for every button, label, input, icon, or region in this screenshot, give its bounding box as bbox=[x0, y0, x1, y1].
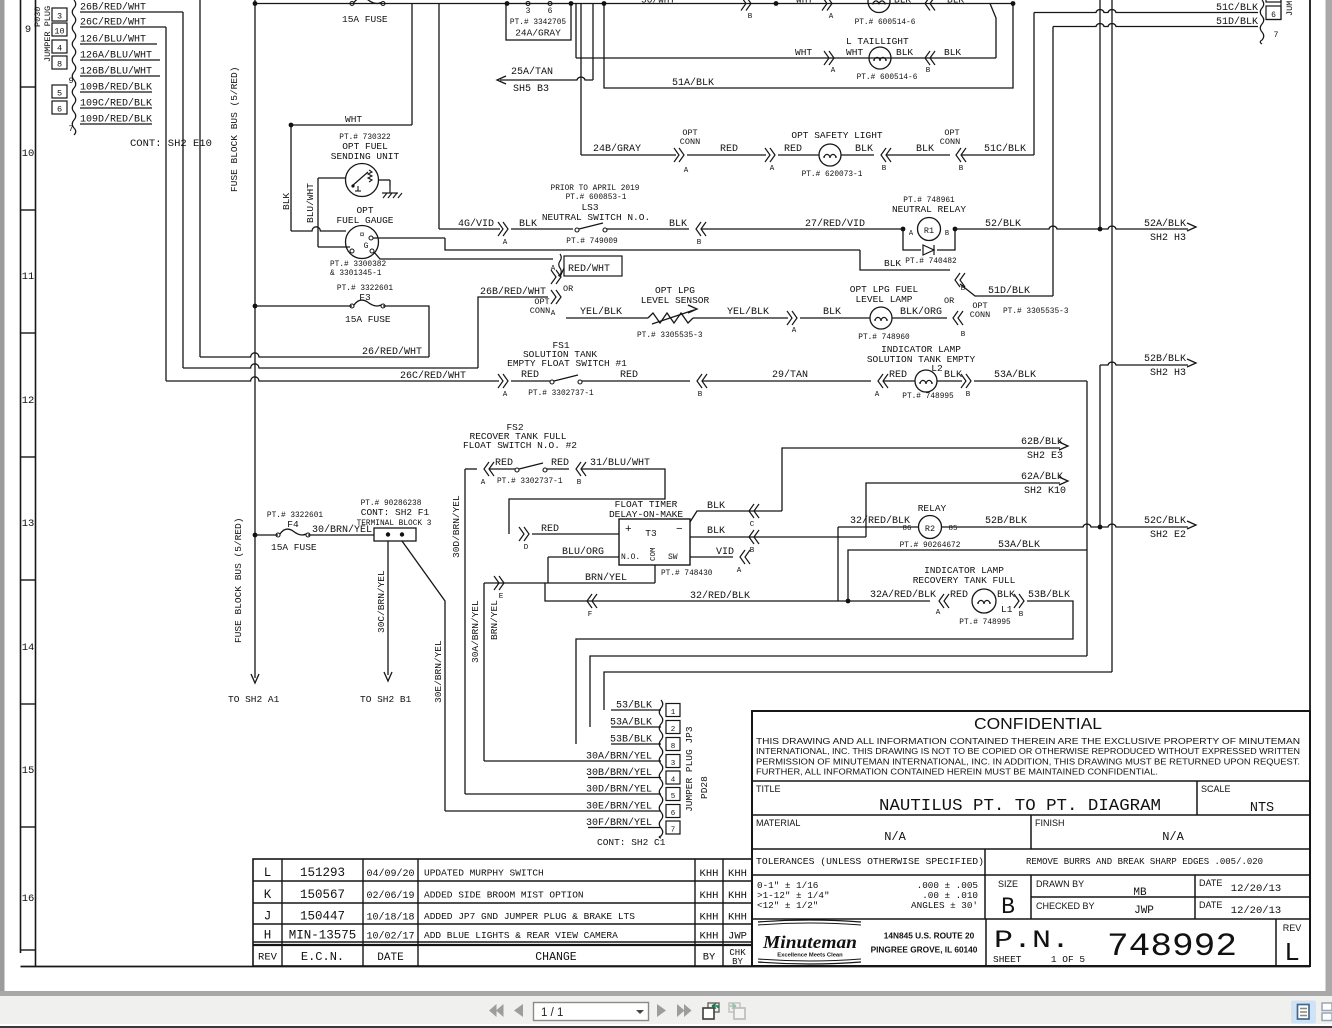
wire RED safety bbox=[687, 154, 766, 156]
JP right pin 6 bbox=[1266, 6, 1281, 20]
wire 4G/VID riser bbox=[438, 4, 440, 230]
connector JP right squiggle bbox=[1260, 0, 1264, 44]
connector OPT CONN right chevrons bbox=[955, 273, 960, 287]
connector l2 B bbox=[966, 374, 971, 388]
wire 53A/BLK bbox=[974, 380, 1087, 382]
title block TITLE row bbox=[752, 780, 1310, 782]
wire 30B/BRN/YEL to JP3 pin 4 bbox=[588, 777, 661, 779]
wire YEL/BLK right bbox=[693, 317, 788, 319]
wire 52B/BLK arrow row bbox=[1100, 362, 1188, 365]
wire 30A feed bbox=[484, 760, 588, 762]
label RED/WHT boxed bbox=[559, 254, 562, 276]
P030 pin 5 bbox=[52, 85, 67, 98]
sheet border bottom line bbox=[21, 966, 1311, 968]
lamp R taillight bbox=[868, 0, 890, 13]
wire 51C riser bbox=[1033, 13, 1035, 156]
wire 26/RED/WHT loop bbox=[383, 306, 429, 357]
bus right vertical 1 bbox=[1099, 0, 1101, 229]
diode PT.# 740482 loop bbox=[903, 229, 921, 250]
wire top feed row bbox=[255, 3, 506, 5]
wire fs2 left bbox=[465, 468, 477, 470]
connector ls3 B bbox=[696, 222, 701, 236]
title block bottom row bbox=[752, 918, 1310, 920]
JP3 pin 3 bbox=[666, 755, 680, 768]
connector row1 B2 bbox=[925, 0, 930, 11]
wire 26/RED/WHT with hop bbox=[200, 353, 429, 357]
sheet border right line bbox=[1309, 0, 1311, 967]
wire 51C/BLK bbox=[961, 154, 1034, 156]
wire 52/BLK with hops bbox=[955, 226, 1188, 229]
toolbar next page button bbox=[657, 1004, 666, 1017]
connector OPT CONN left chevrons bbox=[556, 270, 561, 284]
viewer toolbar separator bbox=[0, 991, 1332, 996]
wire 24B/GRAY bbox=[581, 154, 676, 156]
JP3 pin 4 bbox=[666, 771, 680, 784]
wire 26C with hop bbox=[166, 377, 499, 381]
wire BLU/ORG bbox=[548, 556, 619, 558]
wire RED fs1 right bbox=[582, 380, 690, 382]
wire L taillight branch bbox=[990, 4, 996, 59]
wire 52B/BLK from R2 with hops bbox=[941, 524, 1188, 527]
viewer toolbar bbox=[0, 996, 1332, 1024]
title block SCALE cell bbox=[1196, 781, 1198, 815]
wire 30D feed bbox=[465, 793, 588, 795]
title block MATERIAL FINISH row bbox=[752, 814, 1310, 816]
arrow TO SH2 A1 bbox=[251, 674, 259, 683]
wire BLK fuel bbox=[290, 125, 292, 231]
connector LPG A bbox=[792, 311, 797, 325]
wire 53A/BLK upper link bbox=[848, 550, 1087, 601]
node 32A junction bbox=[846, 599, 851, 604]
wire BLK l2 bbox=[937, 380, 962, 382]
wire 62B/BLK bbox=[782, 448, 1060, 511]
wire WHT riser from top fuse bbox=[411, 4, 413, 126]
wire 51D/BLK from opt conn bbox=[960, 284, 1053, 296]
wire BRN/YEL bbox=[484, 582, 655, 584]
wire 52B riser bbox=[1099, 365, 1101, 527]
zone ticks left edge bbox=[21, 86, 36, 88]
wire 26C/RED/WHT riser bbox=[165, 27, 167, 381]
wire 30F/BRN/YEL to JP3 pin 7 bbox=[588, 827, 661, 829]
wire 29/TAN bbox=[702, 380, 871, 382]
wire RED l2 bbox=[883, 380, 915, 382]
switch FS2 contacts bbox=[515, 468, 519, 472]
node row1 junction bbox=[774, 1, 779, 6]
wire 32/RED/BLK long bbox=[545, 583, 930, 601]
wire BLK/ORG bbox=[892, 317, 947, 319]
node junction at switch box right bbox=[569, 1, 574, 6]
title block TOLERANCES row bbox=[752, 848, 1310, 850]
JP3 pin 6 bbox=[666, 805, 680, 818]
node 52A junction bbox=[1098, 227, 1103, 232]
connector fs2 B bbox=[576, 462, 581, 476]
svg-text:1 / 1: 1 / 1 bbox=[541, 1007, 563, 1019]
connector row1 A bbox=[827, 0, 832, 11]
wire 27/RED/VID bbox=[701, 228, 903, 230]
connector VID A bbox=[740, 550, 745, 564]
wire sender to ground bbox=[379, 179, 391, 181]
wire L taillight row bbox=[576, 57, 996, 59]
wire BLK safety bbox=[841, 154, 874, 156]
sender U1 circle bbox=[346, 164, 379, 197]
wire 53B/BLK to JP3 pin 8 bbox=[611, 743, 661, 745]
arrow 52C/BLK SH2 E2 bbox=[1187, 521, 1196, 529]
P030 pin 8 bbox=[52, 56, 67, 69]
toolbar continuous view icon (cut at edge) bbox=[1322, 1003, 1332, 1011]
wire 53 return bbox=[604, 672, 1112, 710]
arrow 52A/BLK SH2 H3 bbox=[1187, 223, 1196, 231]
bus right vertical 2 bbox=[1111, 0, 1113, 672]
wire 30/BRN/YEL bbox=[308, 534, 374, 536]
wire BLU/WHT bbox=[318, 177, 346, 179]
wire gauge lower output bbox=[374, 252, 553, 259]
wire BLK safety 2 bbox=[886, 154, 950, 156]
toolbar page combo box bbox=[534, 1003, 649, 1021]
wire RED t3 bbox=[532, 533, 619, 535]
wire row1 to taillight section bbox=[571, 3, 1013, 5]
wire BLK to opt conn bbox=[860, 250, 950, 270]
node 51A junction left bbox=[602, 1, 607, 6]
node WHT junction bbox=[289, 123, 294, 128]
revision table bbox=[253, 859, 752, 966]
wire RED fs1 bbox=[511, 380, 550, 382]
wire SW VID output bbox=[690, 556, 733, 558]
fuse F2 15A bbox=[350, 2, 354, 6]
wire 4G/VID row bbox=[439, 228, 500, 230]
P030 pin 4 bbox=[52, 40, 67, 53]
connector t3 E bbox=[499, 576, 504, 590]
switch box 24A/GRAY connector bbox=[506, 4, 571, 41]
wire 30E/BRN/YEL to JP3 pin 6 bbox=[588, 810, 661, 812]
title block DATE cells bbox=[1194, 875, 1196, 919]
connector t3 C bbox=[749, 504, 754, 518]
JP3 pin 7 bbox=[666, 821, 680, 834]
logo Minuteman bbox=[758, 920, 861, 922]
connector OPT CONN safety right bbox=[956, 148, 961, 162]
toolbar next view icon (disabled) bbox=[729, 1003, 740, 1012]
connector JP3 squiggle bbox=[659, 700, 663, 838]
wire 30A riser bbox=[483, 583, 485, 761]
JP3 pin 1 bbox=[666, 704, 680, 717]
wire 31/BLU/WHT bbox=[509, 469, 665, 534]
node 52C junction bbox=[1098, 525, 1103, 530]
wire 53A riser bbox=[1086, 381, 1088, 656]
toolbar first page button bbox=[489, 1004, 497, 1017]
title block tolerance values bbox=[752, 874, 1310, 876]
wire 26B/RED/WHT riser bbox=[182, 12, 184, 368]
wire 30E feed bbox=[445, 810, 588, 812]
wire 53/BLK to JP3 pin 1 bbox=[611, 709, 661, 711]
wire 53A/BLK to JP3 pin 2 bbox=[611, 726, 661, 728]
node 51A junction right bbox=[1011, 1, 1016, 6]
wire BLK t3 upper bbox=[690, 511, 782, 522]
sheet border outer left line bbox=[20, 0, 22, 953]
ground fuel sender bbox=[389, 186, 391, 193]
P030 pin 3 bbox=[52, 8, 67, 21]
wire BLK lpg bbox=[800, 317, 870, 319]
wire 32/RED/BLK to R2 bbox=[838, 526, 918, 528]
connector 4G A bbox=[503, 222, 508, 236]
wire 25A/TAN with hop over riser bbox=[500, 77, 593, 80]
connector row1 B bbox=[746, 0, 751, 11]
connector F bbox=[587, 594, 592, 608]
JP3 pin 8 bbox=[666, 738, 680, 751]
node bus junction F3 bbox=[253, 304, 258, 309]
connector safety B bbox=[881, 148, 886, 162]
wire 51A/BLK rectangle bbox=[604, 4, 1013, 89]
connector L2 A bbox=[878, 374, 883, 388]
wire BLK ls3 right bbox=[607, 228, 689, 230]
gauge M1 circle bbox=[346, 226, 379, 259]
node bus junction F4 bbox=[253, 533, 258, 538]
wire 53B/BLK loop bbox=[576, 601, 1073, 744]
JP right pin 5 partial bbox=[1266, 0, 1281, 2]
wire 51C/BLK top bbox=[1034, 10, 1258, 13]
wire 53A return bbox=[590, 656, 1087, 727]
wire 30D/BRN/YEL to JP3 pin 5 bbox=[588, 793, 661, 795]
wire 62A/BLK bbox=[866, 483, 1060, 537]
wire 26B with hop bbox=[183, 364, 478, 368]
wire opt conn upper to box bbox=[560, 268, 564, 277]
title block outer box bbox=[752, 711, 1310, 966]
viewer right gray margin bbox=[1326, 0, 1332, 991]
JP3 pin 5 bbox=[666, 788, 680, 801]
node bus top junction bbox=[253, 1, 258, 6]
wire R2 riser bbox=[837, 527, 839, 601]
connector fs1 B bbox=[697, 374, 702, 388]
connector P030 squiggle bbox=[72, 0, 76, 135]
wire BLK ls3 bbox=[511, 228, 573, 230]
toolbar previous view icon bbox=[708, 1003, 719, 1012]
wire 30A/BRN/YEL to JP3 pin 3 bbox=[588, 760, 661, 762]
connector OPT CONN safety A bbox=[679, 148, 684, 162]
connector t3 D bbox=[524, 527, 529, 541]
title block REV cell bbox=[1275, 919, 1277, 966]
wire WHT bbox=[291, 124, 412, 126]
wire YEL/BLK left bbox=[566, 317, 648, 319]
connector safety A2 bbox=[770, 148, 775, 162]
wire BLK t3 lower bbox=[690, 536, 866, 538]
sheet border inner left line bbox=[35, 0, 37, 966]
JP3 pin 2 bbox=[666, 721, 680, 734]
connector t3 B bbox=[749, 530, 754, 544]
wire 51D riser bbox=[1052, 27, 1054, 297]
toolbar prev page button bbox=[514, 1004, 523, 1017]
wire RED fs2 right bbox=[547, 468, 569, 470]
wire 51D/BLK top bbox=[1053, 24, 1258, 27]
node junction at switch box left bbox=[505, 1, 510, 6]
P030 pin 6 bbox=[52, 101, 67, 114]
wire L taillight feed riser bbox=[575, 4, 577, 59]
viewer left gray margin bbox=[0, 0, 5, 991]
connector fs2 A bbox=[484, 462, 489, 476]
bus FUSE BLOCK BUS vertical wire bbox=[254, 0, 256, 678]
wire 30E/BRN/YEL diagonal bbox=[402, 541, 445, 811]
toolbar last page button bbox=[677, 1004, 685, 1017]
wire 30C/BRN/YEL bbox=[387, 541, 389, 675]
wire gauge G output bbox=[373, 237, 445, 239]
wire 25A/TAN riser bbox=[592, 4, 594, 81]
wire 24B/GRAY riser bbox=[580, 4, 582, 156]
toolbar single page view icon (active) bbox=[1291, 1001, 1316, 1024]
P030 pin 10 bbox=[52, 23, 67, 36]
wire 30D riser bbox=[464, 469, 466, 794]
wire RED fs2 bbox=[489, 468, 515, 470]
connector FS1 A bbox=[503, 374, 508, 388]
wire 26B riser to opt conn bbox=[478, 297, 548, 368]
wire 26/RED/WHT riser to sheet top bbox=[199, 0, 201, 357]
resistor LPG sensor bbox=[648, 313, 693, 323]
wire RED 2 bbox=[778, 154, 819, 156]
